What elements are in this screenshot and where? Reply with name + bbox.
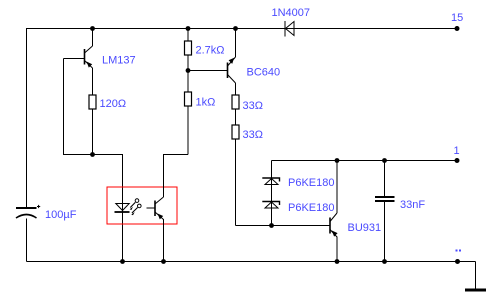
LED opto (115, 204, 130, 213)
transistor BU931 (330, 213, 338, 237)
wire step to 1k (164, 154, 189, 156)
node junction top rail / BC640 (233, 26, 238, 31)
diode P6KE180 upper (262, 178, 279, 185)
wire 120R bottom (92, 109, 94, 155)
wire between 33R (235, 109, 237, 125)
node junction BU931 emitter / bottom rail (335, 259, 340, 264)
node 15 terminal (451, 12, 463, 31)
node 1 terminal (455, 158, 460, 163)
svg-text:33Ω: 33Ω (243, 100, 263, 112)
wire base loop vertical (63, 59, 65, 155)
wire top rail (27, 28, 458, 30)
wire P6KE chain (271, 161, 273, 226)
label terminal dots (456, 250, 462, 252)
svg-text:33nF: 33nF (400, 199, 425, 211)
wire LM137 base (64, 58, 85, 60)
svg-text:2.7kΩ: 2.7kΩ (196, 45, 225, 57)
node junction 120R / wire (90, 152, 95, 157)
node junction cap / node1 rail (382, 158, 387, 163)
resistor 120R (89, 95, 96, 109)
resistor 1k (185, 92, 192, 106)
capacitor 33nF (375, 197, 395, 201)
transistor LM137 (85, 46, 93, 68)
svg-text:BU931: BU931 (348, 222, 382, 234)
node junction opto emitter / bottom rail (161, 259, 166, 264)
svg-text:1kΩ: 1kΩ (196, 97, 216, 109)
svg-text:1: 1 (454, 145, 460, 157)
wire BU931 emitter (336, 237, 338, 262)
svg-text:15: 15 (451, 12, 463, 24)
transistor BC640 (228, 57, 236, 83)
wire 2.7k top (187, 29, 189, 42)
wire cap 33nF bottom (384, 202, 386, 262)
svg-text:100µF: 100µF (45, 209, 77, 221)
wire opto emitter down (163, 219, 165, 262)
resistor 33R upper (232, 95, 239, 109)
diode P6KE180 lower (262, 202, 279, 209)
wire LM137 emitter to resistor (92, 68, 94, 95)
node 0 terminal (455, 259, 460, 264)
wire horizontal mid-left (63, 154, 123, 156)
red highlight box optocoupler (107, 187, 177, 224)
wire BC640 collector down (235, 83, 237, 95)
wire BC640 base (188, 70, 228, 72)
wire base rail y225 (236, 225, 331, 227)
wire left rail upper (26, 28, 28, 208)
wire left rail lower (26, 219, 28, 262)
wire LM137 collector (92, 29, 94, 47)
node junction top rail / 2.7k (186, 26, 191, 31)
resistor 33R lower (232, 125, 239, 139)
opto light arrows (130, 199, 141, 216)
ground (465, 289, 486, 292)
node junction top rail / LM137 (90, 26, 95, 31)
diode 1N4007 (285, 21, 294, 37)
wire 2.7k bottom (187, 55, 189, 92)
node junction 2.7k/1k/base (186, 68, 191, 73)
svg-text:LM137: LM137 (102, 55, 136, 67)
node junction BU931 collector / rail (335, 158, 340, 163)
svg-text:BC640: BC640 (247, 67, 281, 79)
wire LED anode (122, 154, 124, 262)
wire BC640 emitter up (235, 29, 237, 58)
wire BU931 collector (336, 161, 338, 214)
svg-text:P6KE180: P6KE180 (288, 177, 334, 189)
capacitor 100uF (16, 205, 40, 218)
svg-text:33Ω: 33Ω (243, 129, 263, 141)
transistor opto phototransistor (147, 197, 164, 220)
node junction cap / bottom rail (382, 259, 387, 264)
svg-text:1N4007: 1N4007 (272, 7, 311, 19)
wire 1k bottom (187, 106, 189, 155)
svg-text:P6KE180: P6KE180 (288, 202, 334, 214)
wire bottom rail (27, 261, 476, 263)
svg-text:120Ω: 120Ω (100, 98, 127, 110)
wire 33R chain down (235, 139, 237, 226)
wire node1 rail (272, 160, 458, 162)
resistor 2.7k (185, 41, 192, 55)
wire ground lead (475, 262, 477, 291)
node junction LED / bottom rail (120, 259, 125, 264)
node junction P6KE / base rail (269, 223, 274, 228)
wire opto collector up (163, 154, 165, 197)
wire cap 33nF top (384, 161, 386, 197)
